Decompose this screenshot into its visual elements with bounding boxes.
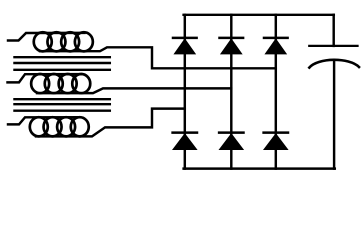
diode D5 (bottom leg2) [219, 133, 243, 150]
diode D4 (bottom leg1) [173, 133, 197, 150]
transformer core 1 (3 lines) [15, 57, 110, 70]
wire phase B (L2 to bridge leg 2) [37, 88, 231, 93]
winding L2 (middle coil, loops) [8, 74, 91, 93]
wire capacitor top lead [332, 15, 334, 46]
capacitor C1 [309, 46, 359, 68]
diode D3 (top leg3) [264, 38, 288, 54]
bridge leg rail 3 [275, 15, 277, 169]
wire phase C (L3 to bridge leg 1) [36, 109, 185, 137]
winding L3 (bottom coil, loops) [8, 117, 89, 136]
diode D6 (bottom leg3) [264, 133, 288, 150]
top bus wire (+) [184, 14, 334, 16]
winding L1 (top coil, loops) [8, 32, 93, 51]
wire phase A (L1 to bridge leg 3) [40, 47, 276, 68]
bridge leg rail 1 [184, 15, 186, 169]
wire capacitor bottom lead [333, 61, 335, 169]
diode D2 (top leg2) [220, 38, 244, 54]
bottom bus wire (-) [184, 167, 335, 169]
diode D1 (top leg1) [173, 38, 197, 54]
transformer core 2 (3 lines) [15, 99, 110, 111]
bridge leg rail 2 [230, 15, 232, 169]
